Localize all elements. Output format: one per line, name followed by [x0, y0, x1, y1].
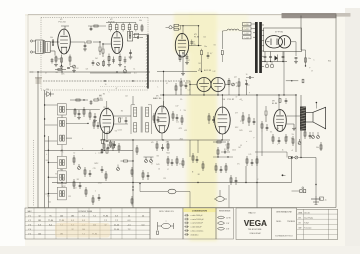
svg-text:L: L: [109, 92, 110, 94]
vega city: [250, 232, 262, 235]
svg-text:R.SpT: R.SpT: [304, 223, 309, 225]
wire y71 right: [157, 71, 197, 72]
wire V3 grid drop: [182, 26, 184, 34]
wire can1 to V4: [66, 109, 100, 124]
svg-text:k12: k12: [56, 72, 59, 74]
svg-text:TM 803: TM 803: [287, 221, 295, 223]
V2 cathode parts: [107, 54, 126, 67]
svg-text:10n: 10n: [204, 46, 207, 48]
parts left of twin: [175, 78, 187, 95]
parts y175: [142, 170, 149, 180]
svg-text:R04: R04: [328, 61, 331, 63]
svg-text:k04: k04: [249, 131, 252, 133]
diode D1: [45, 89, 54, 97]
svg-text:L: L: [158, 87, 159, 89]
parts right of twin: [228, 76, 254, 95]
svg-text:220: 220: [46, 89, 49, 91]
svg-text:0,17: 0,17: [175, 105, 178, 107]
parts row y100: [70, 99, 103, 105]
svg-text:a mica ceramica: a mica ceramica: [191, 229, 204, 232]
audio out wire y152: [255, 152, 301, 159]
V2 screen cap: [129, 50, 133, 60]
vert drop v6: [221, 134, 223, 140]
svg-text:2k12: 2k12: [180, 139, 184, 141]
V6 right parts: [242, 112, 255, 126]
svg-text:R25: R25: [182, 85, 185, 87]
svg-text:L: L: [95, 153, 96, 155]
svg-text:0,125: 0,125: [118, 130, 122, 132]
vega televizore: [248, 229, 262, 231]
svg-text:5%04: 5%04: [107, 132, 111, 134]
V3 input cluster: [166, 24, 181, 30]
wire top feed V3 to plates: [0, 0, 1, 1]
svg-text:M04: M04: [167, 152, 170, 154]
svg-text:V7 PY81: V7 PY81: [275, 31, 284, 33]
V3 anode wire right: [189, 45, 202, 46]
tuner bottom row: [90, 58, 131, 73]
data table rows: [297, 212, 338, 235]
svg-text:elettrolitici: elettrolitici: [191, 233, 199, 236]
feeder x291: [291, 157, 292, 183]
svg-text:L12: L12: [188, 90, 191, 92]
heater wires in box: [291, 41, 296, 43]
V8 left parts: [261, 121, 268, 132]
svg-text:V 5: V 5: [28, 233, 31, 235]
denominazione foot: [275, 235, 293, 238]
svg-text:4712: 4712: [75, 68, 79, 70]
svg-text:n: n: [242, 100, 243, 102]
sound chain wires: [48, 145, 62, 194]
svg-text:2 W: 2 W: [226, 229, 229, 231]
fuse oval on bus: [123, 66, 126, 73]
vert drop v4: [104, 140, 106, 145]
bus y182.5: [52, 182, 292, 183]
svg-text:1M12: 1M12: [94, 163, 98, 165]
IF can 1: [57, 104, 66, 115]
svg-text:47: 47: [151, 164, 153, 166]
tube V8 EL84 audio: [274, 110, 287, 132]
wire V8 to OT: [286, 116, 300, 131]
V1 ground cluster: [54, 65, 76, 73]
svg-text:1 W: 1 W: [226, 223, 229, 225]
connector block: [292, 187, 306, 193]
svg-text:2k2: 2k2: [95, 58, 98, 60]
yellow highlight strip: [174, 13, 248, 241]
cluster right of cans: [74, 107, 97, 123]
svg-text:M1: M1: [198, 174, 200, 176]
svg-text:21-40: 21-40: [114, 229, 120, 231]
svg-text:4704: 4704: [179, 163, 183, 165]
tube V6 PCL82: [215, 107, 231, 134]
svg-text:Ju: Ju: [325, 200, 327, 202]
svg-text:k7: k7: [311, 70, 313, 72]
svg-text:a volte 400 pF: a volte 400 pF: [191, 226, 202, 229]
svg-text:2k1: 2k1: [47, 196, 50, 198]
denominazione model: [276, 221, 295, 223]
svg-text:p12: p12: [234, 76, 237, 78]
svg-text:47: 47: [116, 88, 118, 90]
svg-text:RAD IO: RAD IO: [249, 211, 256, 214]
svg-text:PL 83: PL 83: [194, 37, 200, 39]
trimmer pair right: [312, 132, 320, 139]
svg-text:77-84: 77-84: [48, 220, 54, 222]
svg-text:TELEVIZORE: TELEVIZORE: [248, 229, 262, 231]
svg-text:50k: 50k: [316, 147, 319, 149]
label V5: [153, 96, 162, 101]
fuse right resistor: [305, 54, 311, 67]
svg-text:L04: L04: [74, 188, 77, 190]
cathode resistor V1: [61, 55, 63, 67]
boost coil: [222, 29, 242, 31]
rectifier box: [264, 28, 302, 52]
IF coil after V2: [127, 32, 132, 42]
bus y150: [45, 150, 133, 151]
mains label plates: [243, 23, 252, 40]
V5 right parts: [172, 111, 183, 125]
twin triode wires: [189, 81, 229, 95]
svg-text:10: 10: [105, 84, 107, 86]
twin bottom dots: [163, 86, 240, 96]
discriminator core: [141, 107, 142, 133]
svg-text:CONDIZ 240B: CONDIZ 240B: [78, 211, 93, 213]
filter parts below transformer: [261, 52, 287, 63]
svg-text:V 2: V 2: [28, 220, 31, 222]
V4 pins bottom: [101, 132, 116, 154]
wire V4 top: [106, 101, 108, 108]
audio bottom parts2: [304, 129, 311, 139]
svg-text:p: p: [253, 137, 254, 139]
svg-text:u: u: [166, 221, 167, 223]
wire y80 right: [286, 79, 304, 83]
feeder x316: [300, 157, 316, 196]
vertical feeder x38: [37, 72, 39, 208]
svg-text:0,11: 0,11: [98, 152, 101, 154]
svg-text:L-101: L-101: [245, 29, 249, 31]
svg-text:V 1: V 1: [28, 215, 31, 217]
lower-left cluster: [103, 141, 120, 153]
svg-text:R12: R12: [103, 107, 106, 109]
stray dot: [282, 174, 286, 176]
trimmer cap cluster: [106, 23, 137, 32]
svg-text:47: 47: [286, 137, 288, 139]
svg-text:4704: 4704: [98, 182, 102, 184]
svg-text:1004: 1004: [44, 193, 48, 195]
wire y140 bus: [100, 139, 230, 140]
denominazione box: [271, 208, 296, 240]
svg-text:n04: n04: [60, 169, 63, 171]
vega box: [236, 208, 271, 240]
schematic border frame: [28, 15, 336, 208]
svg-text:477: 477: [166, 141, 169, 143]
jack symbol: [311, 196, 326, 205]
wire V8 top: [278, 94, 279, 109]
svg-text:L7: L7: [167, 169, 169, 171]
tube V1 PCC84: [58, 29, 71, 54]
svg-text:10: 10: [246, 74, 248, 76]
svg-text:477: 477: [247, 85, 250, 87]
feeder x262: [261, 132, 263, 156]
wire V1 right: [71, 41, 101, 55]
vert drop v5: [161, 133, 163, 140]
svg-text:k25: k25: [184, 130, 187, 132]
feeder x257: [256, 94, 257, 207]
scattered value labels: [44, 36, 331, 203]
svg-text:47: 47: [187, 82, 189, 84]
wire V5 top: [162, 101, 164, 109]
resistenze rows: [217, 216, 231, 230]
svg-text:VEGA: VEGA: [244, 219, 267, 228]
svg-text:DENOMINAZIONE: DENOMINAZIONE: [276, 210, 292, 213]
svg-text:n: n: [246, 141, 247, 143]
svg-text:10: 10: [158, 168, 160, 170]
svg-text:PCL 82: PCL 82: [228, 99, 235, 101]
wire v5 top bus: [163, 72, 164, 107]
parts under V5: [156, 141, 169, 151]
label V2: [108, 19, 116, 24]
svg-text:k25: k25: [151, 142, 154, 144]
feeder x246: [245, 166, 247, 183]
svg-text:0,112: 0,112: [275, 128, 279, 130]
data table box: [297, 209, 338, 239]
sound section dashed edge: [33, 140, 35, 206]
svg-text:R1: R1: [199, 69, 201, 71]
svg-text:16.6.56: 16.6.56: [304, 213, 309, 215]
shield hatch: [146, 35, 147, 87]
label V4b: [198, 70, 212, 72]
tube V5 EABC80: [155, 106, 170, 133]
svg-text:10n: 10n: [308, 58, 311, 60]
svg-text:C12: C12: [176, 121, 179, 123]
label V7: [275, 31, 284, 33]
grey connector blob: [35, 77, 42, 84]
svg-text:47: 47: [103, 60, 105, 62]
wire fuse up: [219, 190, 221, 197]
V3 mid parts2: [207, 52, 213, 59]
tuner coil L2: [50, 37, 54, 46]
wire V4 to disc: [114, 116, 131, 124]
power line resistor: [0, 0, 1, 1]
wire disc top: [132, 96, 134, 105]
table orange smear: [55, 219, 110, 238]
discriminator frame wires: [131, 105, 152, 134]
antenna transformer T1: [36, 40, 51, 54]
label V6: [223, 99, 235, 101]
svg-text:k1: k1: [134, 69, 136, 71]
svg-text:1/2 W: 1/2 W: [226, 217, 231, 219]
svg-text:n25: n25: [85, 69, 88, 71]
svg-text:n12: n12: [48, 202, 51, 204]
svg-text:4,7: 4,7: [210, 53, 212, 55]
svg-text:EABC 80: EABC 80: [153, 97, 162, 100]
svg-text:n: n: [169, 81, 170, 83]
svg-text:C25: C25: [193, 44, 196, 46]
wire V3 top feed: [181, 25, 200, 45]
wire V6 top: [222, 94, 223, 107]
antenna input terminals: [30, 40, 35, 53]
svg-text:R12: R12: [224, 149, 227, 151]
boost resistor: [221, 31, 223, 62]
svg-text:M25: M25: [61, 73, 64, 75]
tube V4 EF80 sync: [100, 108, 114, 133]
feeder x296: [295, 94, 296, 152]
feeder x133: [132, 140, 133, 208]
svg-text:47: 47: [166, 83, 168, 85]
svg-text:n7: n7: [236, 97, 238, 99]
voltage table cells: [28, 215, 145, 235]
svg-text:n12: n12: [125, 96, 128, 98]
svg-text:10: 10: [108, 62, 110, 64]
svg-text:0,1: 0,1: [120, 118, 122, 120]
svg-text:50k: 50k: [139, 20, 142, 22]
sound IF can C: [57, 171, 66, 184]
wire between cans: [45, 105, 72, 141]
svg-text:PCC 84: PCC 84: [59, 21, 67, 23]
antenna feed coil: [30, 71, 38, 73]
svg-text:1012: 1012: [232, 150, 236, 152]
V1 anode load: [69, 55, 71, 66]
svg-text:10: 10: [73, 152, 75, 154]
svg-text:a carta 10000 pF: a carta 10000 pF: [191, 218, 204, 221]
vertical feeder x48: [48, 136, 49, 208]
HT wire right: [301, 16, 306, 55]
parts x245-256 lower: [246, 156, 258, 166]
label V1: [59, 19, 67, 24]
svg-text:0,1: 0,1: [245, 80, 247, 82]
parts on x133: [131, 145, 138, 206]
svg-text:L-102: L-102: [245, 33, 249, 35]
fuse oval 2: [139, 183, 190, 208]
speaker cone: [306, 102, 326, 129]
trimmer 118 169: [117, 165, 120, 171]
wire V2 top: [116, 30, 118, 33]
discriminator coil B: [134, 123, 137, 132]
svg-text:V 4: V 4: [28, 229, 31, 231]
IF can 3: [57, 118, 66, 145]
transformer winding stubs: [251, 24, 264, 67]
svg-text:4725: 4725: [179, 128, 183, 130]
svg-text:50k: 50k: [50, 37, 53, 39]
svg-text:C25: C25: [163, 178, 166, 180]
parts 313-318: [316, 142, 322, 151]
rectifier output wires: [294, 42, 298, 64]
tube V2 PCF80: [111, 32, 122, 54]
voltage table grid: [25, 208, 150, 239]
svg-text:p12: p12: [240, 121, 243, 123]
voltage table box: [25, 208, 150, 239]
svg-text:101: 101: [203, 36, 206, 38]
parts left edge 102: [101, 166, 107, 181]
sound IF can B: [57, 156, 66, 169]
bus AGC lower: [43, 80, 190, 81]
svg-text:V 3: V 3: [28, 224, 31, 226]
cluster side parts: [88, 20, 143, 32]
svg-text:ECC 85: ECC 85: [204, 70, 212, 72]
V2 grid wire: [102, 43, 111, 57]
svg-text:2k: 2k: [235, 83, 237, 85]
svg-text:p: p: [249, 92, 250, 94]
svg-text:RESISTENZE: RESISTENZE: [219, 210, 231, 212]
grid parts left of V1: [51, 56, 61, 64]
svg-text:10: 10: [295, 128, 297, 130]
svg-text:21-40: 21-40: [114, 224, 120, 226]
svg-text:L25: L25: [249, 154, 252, 156]
V8 grid resistor: [265, 98, 287, 122]
top-right page edge shadow: [282, 13, 351, 18]
fuse oval lower: [214, 197, 227, 202]
output transformer: [300, 107, 305, 130]
svg-text:10: 10: [228, 144, 230, 146]
svg-text:a volte 1000 pF: a volte 1000 pF: [191, 214, 203, 217]
svg-text:n: n: [65, 183, 66, 185]
parts x231: [229, 175, 237, 208]
svg-text:EL 84: EL 84: [272, 103, 278, 105]
svg-text:L-100: L-100: [245, 24, 249, 26]
svg-text:p04: p04: [62, 179, 65, 181]
coupling cap V2-V3: [133, 33, 143, 39]
parts x166-183 lower: [167, 156, 184, 168]
V3 right parts: [190, 40, 206, 49]
svg-text:1012: 1012: [235, 127, 239, 129]
svg-text:k12: k12: [213, 71, 216, 73]
svg-text:p: p: [309, 67, 310, 69]
sound IF can D: [57, 187, 66, 200]
discriminator coil C: [146, 107, 149, 116]
svg-text:L: L: [277, 144, 278, 146]
V5 left parts: [153, 113, 159, 123]
shield bar: [133, 35, 149, 89]
svg-text:EF 80: EF 80: [97, 98, 103, 100]
mod video symbol: [157, 221, 174, 235]
wire V1 top: [61, 26, 69, 30]
vertical feeder x44.6: [44, 90, 45, 208]
svg-text:CONDENSATORI: CONDENSATORI: [192, 209, 208, 212]
condensatori header: [183, 208, 215, 212]
wire tuner to V1: [50, 42, 59, 56]
condensatori rows: [184, 214, 204, 236]
svg-text:KRAGUJEVAC: KRAGUJEVAC: [250, 232, 262, 235]
svg-text:77-84: 77-84: [103, 215, 109, 217]
svg-text:MOD.: MOD.: [276, 221, 282, 223]
voltage table header: [27, 210, 92, 213]
svg-text:47: 47: [45, 73, 47, 75]
wire y72: [37, 71, 150, 72]
vega radio small: [249, 211, 256, 214]
svg-text:477: 477: [235, 112, 238, 114]
svg-text:p: p: [82, 148, 83, 150]
svg-text:2k: 2k: [282, 150, 284, 152]
wire bus y95: [160, 94, 296, 96]
svg-text:2k25: 2k25: [156, 164, 160, 166]
condensatori box: [183, 208, 216, 239]
mod video box: [150, 208, 183, 239]
svg-text:a carta 1000 pF: a carta 1000 pF: [191, 222, 203, 225]
tuner dashed enclosure: [41, 18, 148, 91]
svg-text:47: 47: [188, 60, 190, 62]
parts x213-233 lower: [213, 141, 230, 173]
IF can 2: [60, 120, 65, 127]
horizontal resistor y161: [121, 160, 134, 162]
wire y157 lower: [213, 156, 233, 157]
svg-text:n: n: [225, 144, 226, 146]
svg-text:0,17: 0,17: [192, 42, 195, 44]
svg-text:1025: 1025: [239, 130, 243, 132]
electrolytic pair: [265, 62, 274, 68]
denominazione header: [276, 210, 292, 213]
wire x301 lower: [300, 95, 302, 158]
svg-text:50k: 50k: [58, 59, 61, 61]
V4 left parts: [93, 119, 99, 129]
anode load resistor: [201, 49, 203, 72]
